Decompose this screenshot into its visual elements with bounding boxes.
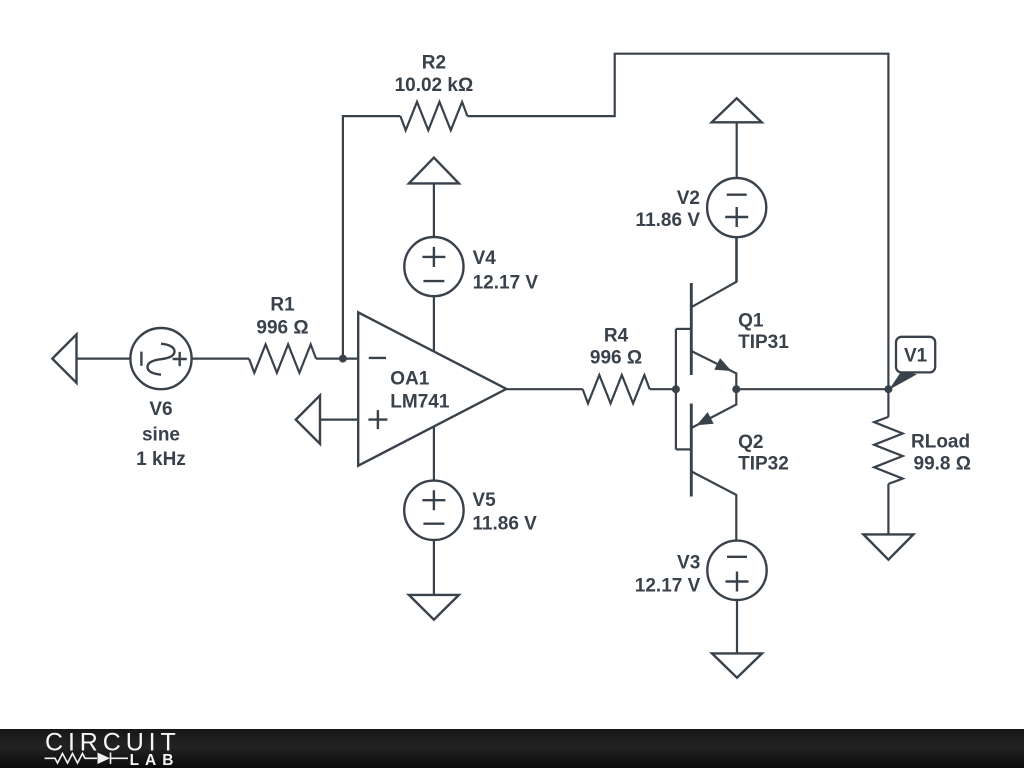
svg-text:12.17 V: 12.17 V bbox=[473, 273, 539, 294]
svg-text:LM741: LM741 bbox=[390, 391, 450, 412]
svg-text:V4: V4 bbox=[473, 248, 497, 269]
svg-text:11.86 V: 11.86 V bbox=[636, 210, 701, 231]
svg-text:11.86 V: 11.86 V bbox=[472, 514, 537, 535]
svg-text:TIP31: TIP31 bbox=[738, 332, 789, 353]
svg-text:Q1: Q1 bbox=[738, 310, 764, 331]
svg-text:Q2: Q2 bbox=[738, 432, 763, 453]
svg-text:99.8 Ω: 99.8 Ω bbox=[914, 454, 972, 475]
svg-text:1 kHz: 1 kHz bbox=[136, 449, 186, 470]
svg-text:V2: V2 bbox=[677, 188, 700, 209]
svg-text:12.17 V: 12.17 V bbox=[635, 575, 701, 596]
svg-text:R1: R1 bbox=[270, 295, 295, 316]
svg-text:996 Ω: 996 Ω bbox=[590, 348, 642, 369]
svg-text:TIP32: TIP32 bbox=[738, 454, 789, 475]
svg-text:RLoad: RLoad bbox=[911, 431, 970, 452]
svg-text:V1: V1 bbox=[904, 346, 928, 367]
svg-text:V3: V3 bbox=[677, 552, 700, 573]
svg-text:R2: R2 bbox=[422, 52, 446, 73]
svg-text:LAB: LAB bbox=[130, 752, 180, 768]
svg-text:V6: V6 bbox=[149, 399, 172, 420]
svg-text:sine: sine bbox=[142, 425, 180, 446]
svg-text:V5: V5 bbox=[472, 490, 496, 511]
svg-text:10.02 kΩ: 10.02 kΩ bbox=[395, 75, 474, 96]
svg-text:996 Ω: 996 Ω bbox=[256, 318, 308, 339]
svg-text:R4: R4 bbox=[604, 325, 629, 346]
svg-text:OA1: OA1 bbox=[390, 369, 430, 390]
